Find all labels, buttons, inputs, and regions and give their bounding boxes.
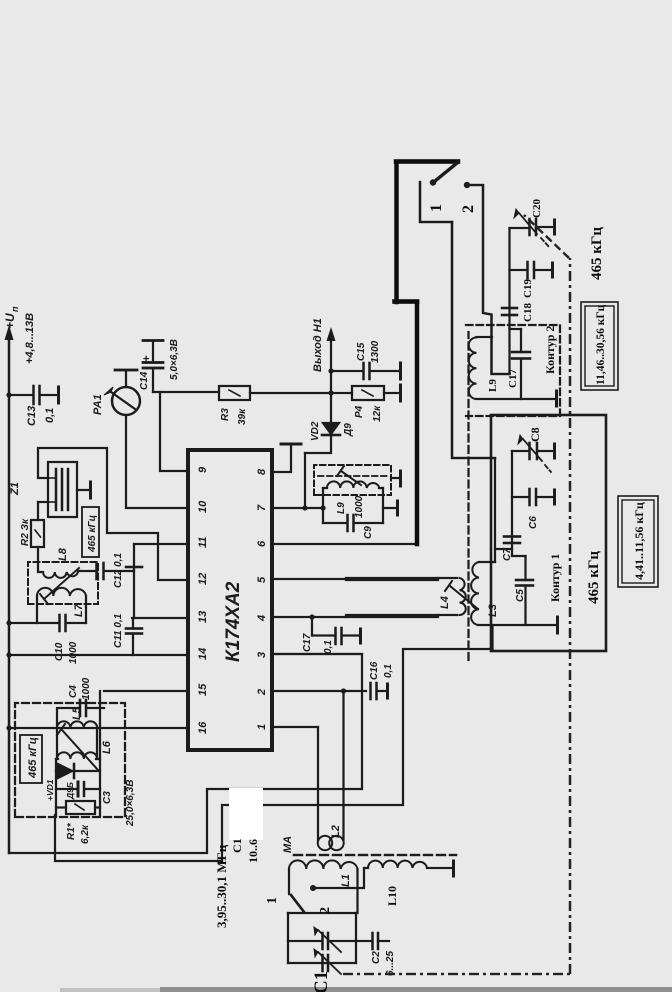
- capacitor C8 trimmer: [512, 450, 529, 452]
- svg-text:С3: С3: [102, 791, 113, 804]
- svg-text:L8: L8: [57, 547, 69, 561]
- svg-text:16: 16: [197, 721, 209, 734]
- capacitor C15: [331, 370, 363, 372]
- node pin4-C17: [309, 614, 314, 619]
- svg-text:Контур 1: Контур 1: [548, 554, 562, 602]
- capacitor C10: [9, 622, 58, 624]
- inductor L1: [288, 869, 290, 894]
- pin 13 wire: [132, 617, 188, 619]
- svg-text:1000: 1000: [354, 495, 365, 518]
- inductor L10: [364, 867, 368, 869]
- inductor L9 demod: [323, 487, 327, 489]
- resistor R3: [219, 386, 250, 400]
- svg-text:2: 2: [460, 205, 477, 213]
- svg-text:С13: С13: [26, 406, 38, 426]
- svg-text:С6: С6: [528, 516, 539, 529]
- svg-text:L9: L9: [336, 502, 347, 514]
- pin 10 wire to PA1: [126, 415, 188, 508]
- wire: rail left end down to pin3 loop: [9, 654, 362, 853]
- power rail +Un: [8, 337, 10, 853]
- svg-text:С10: С10: [54, 642, 65, 661]
- svg-text:10..6: 10..6: [246, 839, 260, 863]
- svg-text:Д9Б: Д9Б: [65, 782, 75, 800]
- svg-text:L2: L2: [330, 825, 342, 838]
- inductor L9: [469, 337, 477, 399]
- ground C13: [57, 387, 60, 403]
- svg-text:3,95..30,1 МГц: 3,95..30,1 МГц: [214, 844, 229, 928]
- capacitor C20 trimmer: [510, 227, 530, 229]
- pin 7 wire: [272, 507, 323, 509]
- scan edge strip (left of landscape = bottom of portrait): [160, 987, 672, 992]
- svg-text:Д9: Д9: [343, 423, 354, 437]
- wire contact1 to kontur1: [452, 222, 495, 458]
- pin 2 wire: [272, 690, 366, 692]
- svg-text:14: 14: [197, 648, 209, 660]
- arrow C20: [519, 213, 537, 234]
- svg-text:2: 2: [256, 689, 268, 696]
- node R3-VD2 line: [328, 390, 333, 395]
- ground L9 rail: [555, 391, 558, 406]
- svg-text:РА1: РА1: [92, 394, 104, 415]
- svg-text:С2: С2: [371, 951, 382, 964]
- heterodyne dashed box: [15, 703, 125, 817]
- node VD2-C15: [328, 368, 333, 373]
- svg-text:1000: 1000: [81, 677, 92, 700]
- svg-text:L10: L10: [385, 886, 399, 906]
- svg-text:13: 13: [197, 611, 209, 623]
- capacitor C12: [97, 563, 104, 579]
- jog to C17: [510, 328, 522, 330]
- svg-text:12: 12: [197, 573, 209, 585]
- output line VD2: [305, 436, 331, 453]
- diode VD2: [322, 434, 340, 437]
- box 4,41..11,56 kGts: [618, 496, 658, 587]
- svg-text:С16: С16: [369, 661, 380, 680]
- svg-text:2: 2: [318, 907, 333, 914]
- white patch C1 value: [229, 788, 263, 840]
- svg-text:С15: С15: [356, 342, 367, 361]
- pin 8 wire + ground: [272, 446, 291, 472]
- tuning arrow L7-L8: [44, 568, 79, 599]
- dashed line MA: [294, 854, 456, 856]
- inductor L3: [471, 562, 479, 625]
- ground L10: [452, 861, 455, 876]
- node rail-pin14: [6, 652, 11, 657]
- svg-text:+4,8...13В: +4,8...13В: [24, 313, 36, 364]
- output arrow: [327, 327, 336, 341]
- wire to C18 row: [508, 228, 510, 328]
- ground Z1: [77, 489, 90, 491]
- wire C7/C6/C8 row: [511, 451, 513, 556]
- svg-text:Z1: Z1: [9, 482, 21, 496]
- svg-text:R3: R3: [220, 408, 231, 421]
- meter PA1: [112, 387, 140, 415]
- svg-text:11,46..30,56 кГц: 11,46..30,56 кГц: [595, 304, 607, 385]
- pin 5 wire: [272, 578, 347, 580]
- pin 11 wire: [134, 543, 188, 545]
- pin 6 wire: [272, 543, 416, 545]
- capacitor C2: [356, 940, 372, 942]
- ground tank: [383, 507, 396, 509]
- box 11,46..30,56 kGts: [581, 302, 618, 390]
- kontur1 big wire rectangle: [491, 415, 606, 651]
- capacitor C6: [512, 496, 529, 498]
- filter Z1: [38, 501, 48, 503]
- node rail-C13: [6, 392, 11, 397]
- wire L5/L6 bottom tie: [96, 728, 98, 759]
- wire contact1/L3 node: [494, 459, 496, 563]
- variable capacitor C1 block: [288, 912, 356, 914]
- svg-text:9: 9: [197, 466, 209, 473]
- svg-text:С14: С14: [139, 371, 150, 390]
- svg-text:0,1: 0,1: [383, 664, 394, 678]
- svg-text:+VD1: +VD1: [45, 779, 55, 801]
- svg-text:R2 Зк: R2 Зк: [20, 518, 31, 546]
- L3 right end jog: [479, 561, 495, 563]
- svg-text:С1: С1: [230, 838, 244, 853]
- module boundary dash-dot: [343, 215, 570, 974]
- power arrow: [5, 325, 14, 340]
- dashed box demod coil: [314, 465, 391, 495]
- wire pin13 to pin11 cross: [133, 544, 135, 618]
- tuning arrow L4-L3: [450, 586, 478, 609]
- svg-text:465 кГц: 465 кГц: [589, 227, 605, 280]
- pin 1 wire: [272, 726, 318, 728]
- diode VD1: [56, 770, 100, 772]
- L3 left rail down: [478, 624, 556, 626]
- svg-text:25,0×6,3В: 25,0×6,3В: [125, 780, 136, 827]
- tuning arrow L5-L6: [62, 730, 98, 770]
- label 465kHz box near R2: [82, 507, 99, 557]
- tank top wire: [322, 488, 324, 523]
- capacitor C11: [132, 618, 134, 627]
- svg-text:С17: С17: [302, 633, 313, 652]
- svg-text:1: 1: [265, 897, 280, 904]
- IC K174XA2 body U1: [188, 450, 272, 750]
- svg-text:5: 5: [256, 576, 268, 583]
- svg-text:C17: C17: [507, 369, 519, 388]
- svg-text:7: 7: [256, 504, 268, 511]
- svg-text:465 кГц: 465 кГц: [87, 515, 98, 553]
- kontur2 dashed box: [466, 325, 560, 416]
- svg-text:R1*: R1*: [66, 822, 77, 840]
- svg-text:1: 1: [428, 204, 445, 212]
- svg-text:0,1: 0,1: [44, 408, 56, 423]
- dashed box L7 L8: [28, 562, 98, 604]
- arrows C1 sections: [318, 930, 341, 952]
- thick wire pin5 to L4: [347, 577, 437, 581]
- svg-text:465 кГц: 465 кГц: [586, 551, 602, 604]
- svg-text:L5: L5: [71, 706, 83, 720]
- svg-text:6,2к: 6,2к: [80, 824, 91, 844]
- inductor L7: [37, 596, 86, 623]
- wire het bottom rail: [99, 691, 101, 815]
- svg-text:МА: МА: [282, 836, 294, 853]
- pin 16 wire to rail: [9, 727, 188, 729]
- capacitor C16: [371, 683, 377, 699]
- pin7 demodulator tank: [302, 505, 307, 510]
- thick wire pin4 to L4: [347, 614, 437, 618]
- svg-text:С7: С7: [502, 548, 513, 561]
- capacitor C3: [56, 788, 100, 790]
- svg-text:VD2: VD2: [310, 421, 321, 441]
- pin 12 wire to Z1 loop: [38, 448, 188, 580]
- svg-text:L1: L1: [340, 874, 352, 887]
- inductor L6: [56, 758, 100, 760]
- svg-text:С5: С5: [515, 589, 526, 602]
- svg-text:465 кГц: 465 кГц: [27, 737, 39, 779]
- node pin2 junctions: [341, 688, 346, 693]
- svg-text:C8: C8: [528, 427, 542, 442]
- node rail-pin16: [6, 725, 11, 730]
- ground demod box: [391, 477, 399, 479]
- ground L3 rail: [556, 617, 559, 633]
- svg-text:15: 15: [197, 683, 209, 696]
- capacitor C19: [510, 269, 528, 271]
- svg-text:С11 0,1: С11 0,1: [113, 613, 124, 648]
- svg-text:3: 3: [256, 652, 268, 658]
- contact 2 node: [310, 885, 316, 891]
- svg-text:6: 6: [256, 540, 268, 547]
- capacitor C17 0,1 at pin4: [311, 617, 313, 636]
- svg-text:С12 0,1: С12 0,1: [113, 553, 124, 588]
- wire het top rail: [55, 759, 57, 815]
- arrow demod coil: [341, 471, 361, 485]
- svg-text:6...25: 6...25: [385, 951, 396, 976]
- wire L5/L6 top tie: [56, 728, 58, 759]
- svg-text:+: +: [141, 355, 153, 362]
- wire top node row: [508, 328, 510, 374]
- svg-text:L3: L3: [487, 604, 499, 617]
- svg-text:0,1: 0,1: [323, 640, 334, 654]
- pin 15 wire: [104, 690, 188, 692]
- svg-text:С9: С9: [363, 526, 374, 539]
- svg-text:L9: L9: [487, 379, 499, 392]
- svg-text:C20: C20: [531, 199, 543, 218]
- wire: heterodyne bottom to kontur1 loop (path B): [55, 649, 491, 861]
- tank bottom wire: [382, 488, 384, 523]
- resistor R1: [66, 801, 95, 814]
- pin 9 wire: [160, 392, 188, 471]
- L9 right lead: [477, 336, 493, 338]
- switch SA1 lever: [435, 163, 457, 181]
- core line dashed: [467, 332, 469, 660]
- svg-text:1000: 1000: [68, 641, 79, 664]
- capacitor C9: [323, 522, 347, 524]
- contact 2: [464, 182, 470, 188]
- svg-text:10: 10: [197, 500, 209, 513]
- capacitor C13: [9, 394, 33, 396]
- svg-text:5,0×6,3В: 5,0×6,3В: [169, 339, 180, 380]
- svg-text:C19: C19: [522, 279, 534, 298]
- resistor R2: [31, 520, 44, 547]
- svg-text:п: п: [10, 306, 20, 312]
- switch SA2 lever: [291, 895, 304, 912]
- wire pin9/C14/R3 junction: [153, 391, 219, 393]
- capacitor C17: [520, 360, 522, 399]
- capacitor C5: [512, 555, 526, 557]
- capacitor C14: [152, 369, 154, 392]
- wire L3 rail to rectangle: [491, 625, 493, 650]
- capacitor C4: [57, 708, 104, 728]
- svg-text:4,41..11,56 кГц: 4,41..11,56 кГц: [632, 502, 646, 580]
- capacitor C7: [504, 537, 520, 544]
- svg-text:Контур 2: Контур 2: [543, 326, 557, 374]
- svg-text:L4: L4: [439, 596, 451, 609]
- capacitor C18: [502, 308, 517, 315]
- svg-text:С4: С4: [68, 685, 79, 698]
- arrow C8: [523, 439, 542, 461]
- pin 4 wire: [272, 616, 347, 618]
- thick wire pin6 to switch: [415, 302, 420, 544]
- svg-text:C1: C1: [311, 971, 332, 992]
- node rail-C10: [6, 620, 11, 625]
- resistor R4: [331, 392, 352, 394]
- inductor L8: [38, 571, 97, 572]
- inductor L4: [460, 578, 466, 615]
- svg-text:1300: 1300: [370, 340, 381, 363]
- svg-text:C18: C18: [522, 303, 534, 322]
- inductor L2 coupling: [317, 727, 319, 840]
- svg-text:1: 1: [256, 724, 268, 730]
- svg-text:39к: 39к: [237, 408, 248, 425]
- svg-text:4: 4: [256, 615, 268, 622]
- pin 14 wire to rail: [9, 654, 188, 656]
- pin 3 wire: [272, 653, 362, 655]
- ground R4: [399, 385, 402, 401]
- svg-text:11: 11: [197, 537, 209, 548]
- svg-text:L6: L6: [101, 740, 113, 754]
- L9 left rail: [477, 398, 556, 400]
- svg-text:К174ХА2: К174ХА2: [223, 581, 244, 662]
- contact 1 bracket: [420, 182, 452, 222]
- svg-text:+U: +U: [3, 313, 17, 329]
- svg-text:Р4: Р4: [354, 405, 365, 418]
- svg-text:Выход Н1: Выход Н1: [312, 318, 324, 372]
- svg-text:12к: 12к: [372, 405, 383, 422]
- svg-text:8: 8: [256, 468, 268, 475]
- jog to C7 wire: [495, 548, 512, 550]
- svg-text:L7: L7: [73, 603, 85, 617]
- inductor L5 on pin16 wire: [57, 721, 97, 728]
- label 465kHz het box: [20, 735, 42, 783]
